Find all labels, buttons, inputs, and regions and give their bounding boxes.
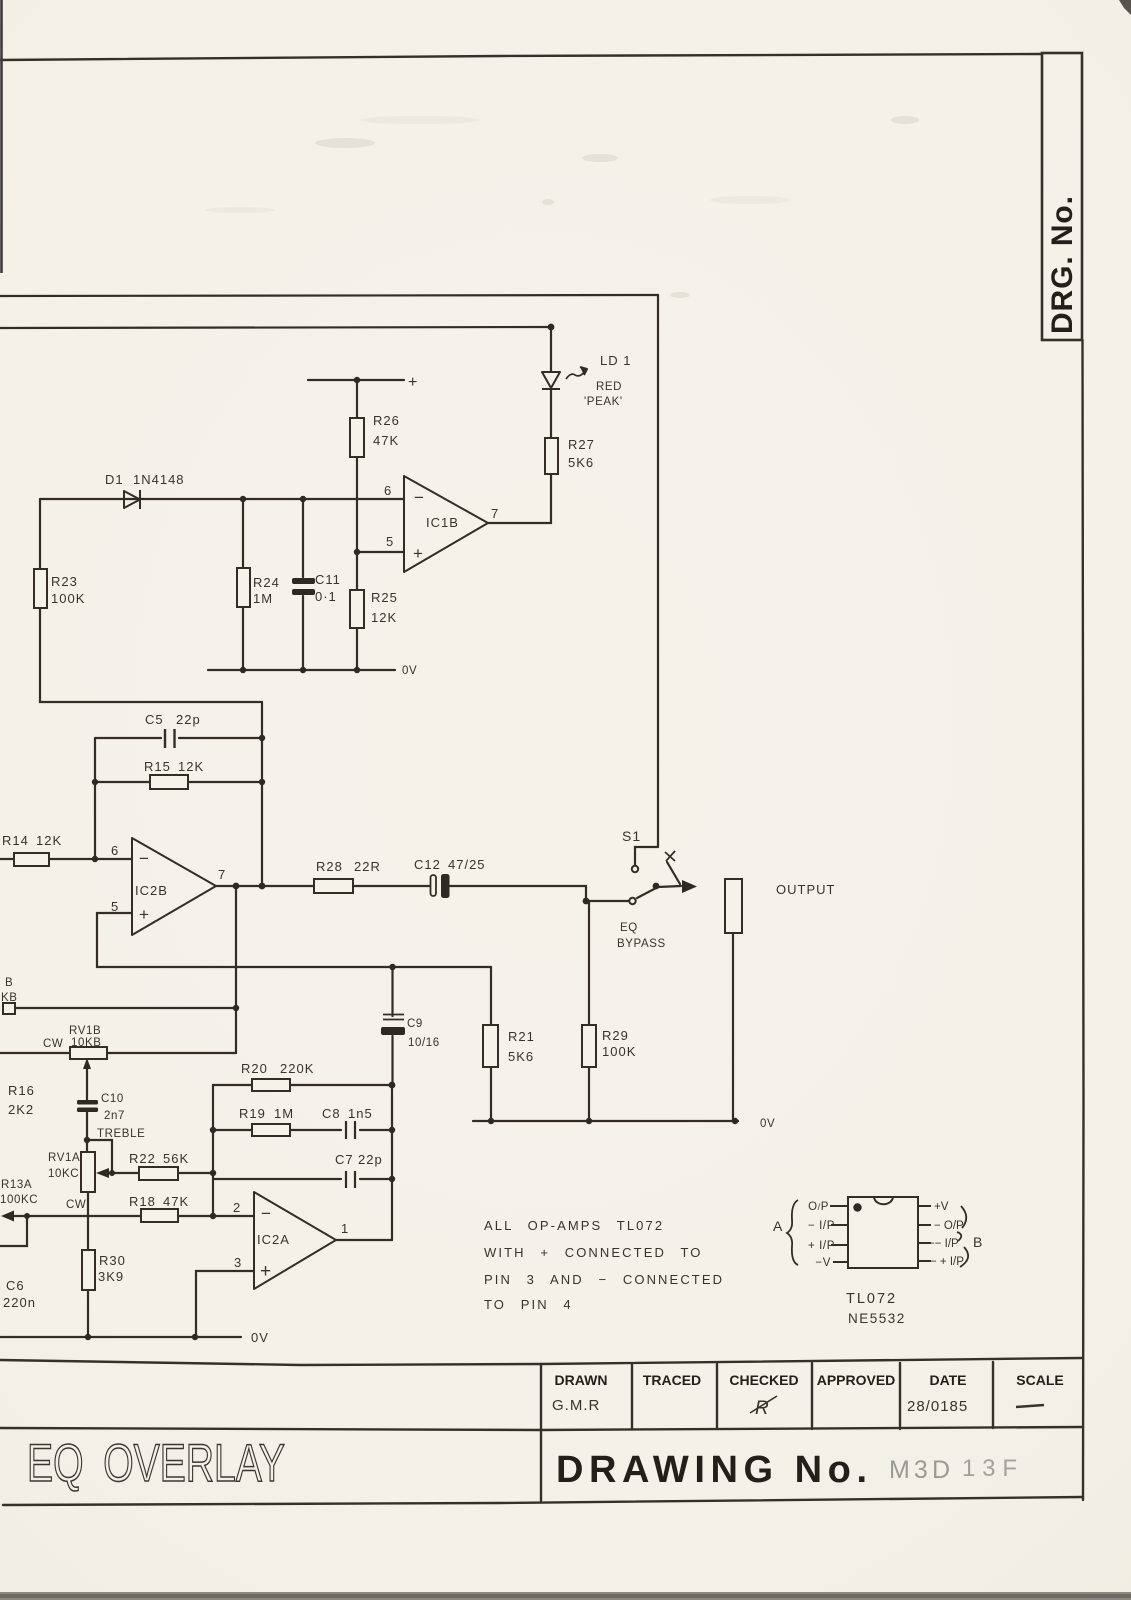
svg-text:R26: R26 <box>373 413 400 428</box>
svg-text:47K: 47K <box>373 433 399 448</box>
svg-text:TL072: TL072 <box>846 1291 897 1307</box>
svg-text:S1: S1 <box>622 828 641 844</box>
svg-text:220K: 220K <box>280 1061 314 1076</box>
svg-text:− I/P: − I/P <box>808 1220 835 1232</box>
svg-text:TRACED: TRACED <box>643 1372 701 1388</box>
svg-text:12K: 12K <box>178 759 204 774</box>
svg-text:R21: R21 <box>508 1029 535 1044</box>
svg-text:IC2A: IC2A <box>257 1232 290 1247</box>
svg-text:C11: C11 <box>315 572 341 587</box>
svg-text:R23: R23 <box>51 574 78 589</box>
svg-text:R20: R20 <box>241 1061 268 1076</box>
svg-text:D1: D1 <box>105 472 124 487</box>
svg-text:−: − <box>139 849 150 868</box>
svg-text:22p: 22p <box>176 712 201 727</box>
svg-text:R15: R15 <box>144 759 171 774</box>
svg-text:TO PIN 4: TO PIN 4 <box>484 1297 573 1312</box>
svg-text:2K2: 2K2 <box>8 1102 34 1117</box>
svg-text:C7: C7 <box>335 1152 354 1167</box>
svg-text:SCALE: SCALE <box>1016 1372 1063 1388</box>
svg-text:1M: 1M <box>274 1106 294 1121</box>
svg-text:KB: KB <box>1 992 18 1004</box>
svg-text:APPROVED: APPROVED <box>817 1372 896 1388</box>
svg-text:OUTPUT: OUTPUT <box>776 882 835 897</box>
svg-text:100K: 100K <box>602 1044 636 1059</box>
svg-text:C8: C8 <box>322 1106 341 1121</box>
svg-text:DRAWING No.: DRAWING No. <box>556 1449 868 1491</box>
svg-text:− O/P: − O/P <box>934 1220 964 1232</box>
svg-text:IC1B: IC1B <box>426 515 459 530</box>
svg-text:R24: R24 <box>253 575 280 590</box>
svg-text:56K: 56K <box>163 1151 189 1166</box>
svg-text:13F: 13F <box>962 1455 1018 1482</box>
svg-text:C10: C10 <box>101 1093 124 1105</box>
svg-text:NE5532: NE5532 <box>848 1311 906 1326</box>
svg-text:+: + <box>408 374 418 391</box>
svg-text:RV1B: RV1B <box>69 1025 101 1037</box>
svg-text:R25: R25 <box>371 590 398 605</box>
svg-text:R22: R22 <box>129 1151 156 1166</box>
svg-text:G.M.R: G.M.R <box>552 1397 600 1414</box>
svg-text:47K: 47K <box>163 1194 189 1209</box>
svg-text:100K: 100K <box>51 591 85 606</box>
svg-text:C5: C5 <box>145 712 164 727</box>
svg-text:3K9: 3K9 <box>98 1269 124 1284</box>
svg-text:6: 6 <box>111 843 119 858</box>
svg-text:+: + <box>260 1261 272 1282</box>
svg-text:RED: RED <box>596 381 622 393</box>
svg-text:22R: 22R <box>354 859 381 874</box>
svg-text:7: 7 <box>491 506 499 521</box>
svg-text:3: 3 <box>234 1255 242 1270</box>
svg-text:1M: 1M <box>253 591 273 606</box>
svg-text:5K6: 5K6 <box>568 455 594 470</box>
svg-text:R27: R27 <box>568 437 595 452</box>
svg-text:IC2B: IC2B <box>135 883 168 898</box>
svg-text:R29: R29 <box>602 1028 629 1043</box>
svg-text:+: + <box>139 905 150 924</box>
svg-text:12K: 12K <box>371 610 397 625</box>
svg-text:EQ: EQ <box>620 922 638 934</box>
svg-text:+: + <box>413 544 424 563</box>
svg-text:TREBLE: TREBLE <box>97 1128 145 1140</box>
svg-text:−: − <box>261 1204 272 1223</box>
svg-text:7: 7 <box>218 867 226 882</box>
svg-text:12K: 12K <box>36 833 62 848</box>
svg-text:100KC: 100KC <box>0 1194 38 1206</box>
svg-text:+V: +V <box>934 1201 949 1213</box>
svg-text:−: − <box>414 488 425 507</box>
svg-text:'PEAK': 'PEAK' <box>584 396 623 408</box>
svg-text:5: 5 <box>386 534 394 549</box>
svg-text:0V: 0V <box>760 1118 775 1130</box>
svg-text:1: 1 <box>341 1221 349 1236</box>
svg-text:C9: C9 <box>407 1018 423 1030</box>
svg-text:B: B <box>973 1234 982 1250</box>
svg-text:A: A <box>773 1218 783 1234</box>
svg-text:−V: −V <box>815 1257 831 1269</box>
svg-text:R30: R30 <box>99 1253 126 1268</box>
svg-text:2: 2 <box>233 1200 241 1215</box>
svg-text:B: B <box>5 977 13 989</box>
svg-text:CW: CW <box>66 1199 86 1211</box>
svg-text:M3D: M3D <box>889 1456 951 1484</box>
svg-text:CW: CW <box>43 1038 63 1050</box>
svg-text:10KC: 10KC <box>48 1168 79 1180</box>
svg-text:RV1A: RV1A <box>48 1152 80 1164</box>
svg-text:WITH + CONNECTED TO: WITH + CONNECTED TO <box>484 1245 702 1260</box>
svg-text:DATE: DATE <box>929 1372 966 1388</box>
svg-text:R16: R16 <box>8 1083 35 1098</box>
svg-text:LD 1: LD 1 <box>600 353 631 368</box>
svg-text:10KB: 10KB <box>71 1037 102 1049</box>
svg-text:0·1: 0·1 <box>315 589 337 604</box>
svg-text:10/16: 10/16 <box>408 1037 440 1049</box>
svg-text:CHECKED: CHECKED <box>729 1372 798 1388</box>
svg-text:5: 5 <box>111 899 119 914</box>
svg-text:R14: R14 <box>2 833 29 848</box>
svg-text:−− I/P: −− I/P <box>928 1238 959 1250</box>
svg-text:− + I/P: − + I/P <box>930 1256 964 1268</box>
svg-text:ALL OP-AMPS TL072: ALL OP-AMPS TL072 <box>484 1218 664 1233</box>
svg-text:1n5: 1n5 <box>348 1106 373 1121</box>
svg-text:EQ OVERLAY: EQ OVERLAY <box>27 1434 285 1493</box>
svg-text:5K6: 5K6 <box>508 1049 534 1064</box>
svg-text:0V: 0V <box>251 1330 269 1345</box>
svg-text:0V: 0V <box>402 665 417 677</box>
svg-text:C12: C12 <box>414 857 441 872</box>
svg-text:1N4148: 1N4148 <box>133 472 185 487</box>
svg-text:28/0185: 28/0185 <box>907 1398 968 1415</box>
svg-text:+ I/P: + I/P <box>808 1240 835 1252</box>
svg-text:22p: 22p <box>358 1152 383 1167</box>
svg-text:2n7: 2n7 <box>104 1110 125 1122</box>
svg-text:R13A: R13A <box>1 1179 32 1191</box>
svg-text:C6: C6 <box>6 1278 25 1293</box>
svg-text:O/P: O/P <box>808 1201 829 1213</box>
svg-text:DRAWN: DRAWN <box>555 1372 608 1388</box>
svg-text:R18: R18 <box>129 1194 156 1209</box>
svg-text:220n: 220n <box>3 1295 36 1310</box>
svg-text:PIN 3 AND − CONNECTED: PIN 3 AND − CONNECTED <box>484 1272 724 1287</box>
svg-text:R28: R28 <box>316 859 343 874</box>
svg-text:47/25: 47/25 <box>448 857 486 872</box>
svg-text:6: 6 <box>384 483 392 498</box>
svg-text:BYPASS: BYPASS <box>617 938 666 950</box>
svg-text:DRG. No.: DRG. No. <box>1046 196 1079 334</box>
svg-text:R19: R19 <box>239 1106 266 1121</box>
